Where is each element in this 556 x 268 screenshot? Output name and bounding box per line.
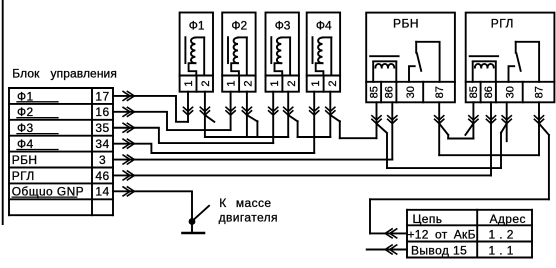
svg-text:87: 87 [534,86,546,98]
svg-text:85: 85 [369,86,381,98]
svg-text:Ф1: Ф1 [189,19,205,33]
svg-text:1: 1 [226,81,238,87]
svg-text:Ф3: Ф3 [17,121,34,135]
svg-text:1 . 2: 1 . 2 [489,227,514,241]
svg-text:Вывод 15: Вывод 15 [411,243,467,257]
svg-text:46: 46 [95,169,109,183]
svg-text:+12 от АкБ: +12 от АкБ [408,227,476,241]
svg-text:30: 30 [405,86,417,98]
svg-text:85: 85 [468,86,480,98]
svg-text:3: 3 [99,153,106,167]
svg-text:86: 86 [483,86,495,98]
svg-text:2: 2 [327,81,339,87]
svg-text:34: 34 [95,137,109,151]
svg-text:массе: массе [236,196,272,210]
svg-text:Ф4: Ф4 [17,137,34,151]
svg-text:30: 30 [504,86,516,98]
svg-text:управления: управления [51,67,117,81]
svg-text:1: 1 [269,81,281,87]
svg-text:К: К [219,196,226,210]
svg-text:Ф2: Ф2 [231,19,247,33]
svg-text:1: 1 [310,81,322,87]
svg-text:2: 2 [286,81,298,87]
svg-text:2: 2 [200,81,212,87]
svg-text:1: 1 [183,81,195,87]
svg-text:РБН: РБН [12,153,38,167]
svg-text:35: 35 [95,121,109,135]
svg-text:87: 87 [434,86,446,98]
svg-text:РГЛ: РГЛ [491,17,514,31]
svg-text:Ф3: Ф3 [275,19,291,33]
svg-text:РГЛ: РГЛ [12,169,35,183]
svg-text:17: 17 [95,89,109,103]
svg-text:2: 2 [243,81,255,87]
svg-text:14: 14 [95,185,109,199]
svg-text:РБН: РБН [393,17,419,31]
svg-text:16: 16 [95,105,109,119]
svg-text:1 . 1: 1 . 1 [489,243,514,257]
svg-text:Цепь: Цепь [413,212,443,226]
svg-text:Адрес: Адрес [490,212,526,226]
svg-text:двигателя: двигателя [219,210,278,224]
svg-text:86: 86 [384,86,396,98]
svg-text:Ф4: Ф4 [316,19,332,33]
svg-text:Блок: Блок [12,67,40,81]
